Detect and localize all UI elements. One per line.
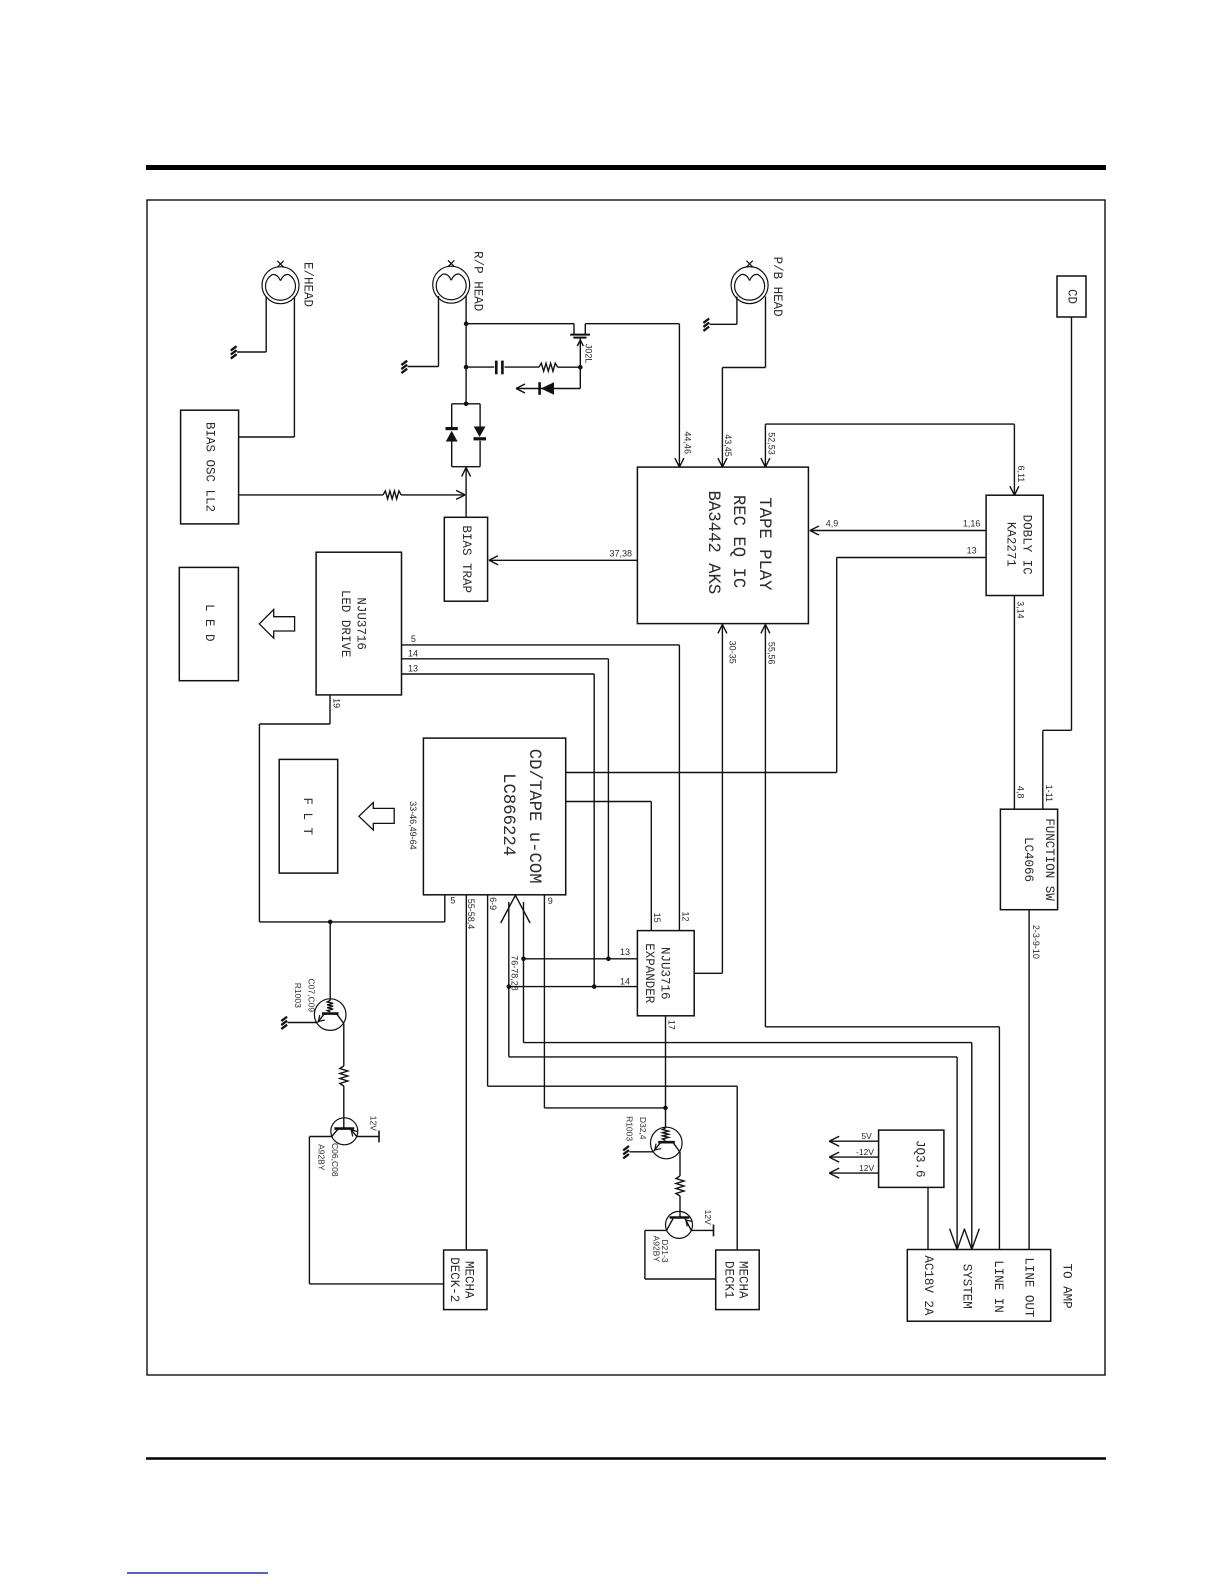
svg-text:R1003: R1003 [293,983,303,1008]
wire LED pin 19 to u-COM pin 5 net [259,695,330,922]
svg-text:REC EQ IC: REC EQ IC [728,495,747,588]
wire expander pin 14 [509,986,638,988]
pin label 5 (LED) [411,634,416,644]
wire resistor to D21 base [679,1196,681,1218]
supply tick 12V (D21) [713,1225,715,1237]
transistor D21 emitter to 12V [685,1218,714,1231]
pin label 76-78,28 [509,955,519,991]
svg-text:1,16: 1,16 [963,519,981,529]
label P/B HEAD [770,257,784,317]
wire CD to FUNCTION SW 1-11 [1043,317,1072,809]
footer blue underline [127,1572,268,1574]
label R1003 (D32) [625,1116,635,1141]
block MECHA DECK-2 [444,1250,487,1310]
block TAPE PLAY REC EQ IC BA3442 AKS [637,467,808,623]
pin label 13 (DOBLY) [967,546,977,556]
svg-text:D32,4: D32,4 [638,1117,648,1140]
wire P/B left lead [710,297,737,325]
wire -12V with arrow [829,1152,878,1162]
schematic border frame [147,200,1105,1375]
svg-text:SYSTEM: SYSTEM [959,1264,973,1309]
pin label 44,46 [682,431,692,454]
node junction pin17/pin9 [663,1106,668,1111]
resistor (C07-C06 link) [340,1066,348,1086]
svg-text:DOBLY IC: DOBLY IC [1020,515,1034,575]
diode D-left branch [446,404,458,467]
label EXPANDER [642,943,656,1004]
label CD/TAPE u-COM [524,749,543,884]
resistor (bias feed) [383,491,401,499]
svg-text:19: 19 [331,698,341,708]
svg-text:TAPE PLAY: TAPE PLAY [754,497,773,591]
pin label 15 [652,913,662,923]
pin label 37,38 [610,549,633,559]
label R/P HEAD [471,251,485,311]
pin label 12 [681,911,691,921]
svg-text:55-58,4: 55-58,4 [466,899,476,930]
svg-text:33-46,49-64: 33-46,49-64 [408,801,418,850]
svg-text:C06,C08: C06,C08 [330,1143,340,1177]
svg-text:12V: 12V [368,1116,378,1131]
label C07,C09 [307,979,317,1013]
wire expander pin 13 [524,958,638,960]
label SYSTEM [959,1264,973,1309]
wire u-COM pin5 node to C07 base [329,922,331,1001]
resistor (gate network) [539,363,558,371]
label JQ3.6 [912,1140,926,1178]
transistor C07 base bar [322,1012,339,1015]
wire 12V with arrow [829,1168,878,1178]
big arrow into SYSTEM (bus A) [964,1229,979,1250]
svg-text:LED DRIVE: LED DRIVE [338,590,352,658]
transistor Q D21-3 (circle) [666,1211,693,1238]
svg-text:14: 14 [408,649,418,659]
capacitor (R/P network) [496,361,502,375]
label DOBLY IC [1020,515,1034,575]
label DECK1 [722,1261,736,1299]
svg-text:DECK1: DECK1 [722,1261,736,1299]
label R1003 (C07) [293,983,303,1008]
block arrow to LED [259,610,294,639]
svg-text:R/P HEAD: R/P HEAD [471,251,485,311]
ground (R/P HEAD) [401,361,407,373]
diode D-right branch [474,404,487,467]
block NJU3716 LED DRIVE [316,552,401,695]
label REC EQ IC [728,495,747,588]
label 12V (C06) [368,1116,378,1131]
svg-text:52,53: 52,53 [766,432,776,455]
wire bus A to SYSTEM arrow [524,902,972,1250]
ground (D32) [623,1146,629,1158]
transistor C07 collector [337,1014,344,1066]
wire capacitor to resistor [505,366,540,368]
transistor D32 collector [673,1142,680,1176]
svg-text:12: 12 [681,911,691,921]
node junction busB/expander14 [507,984,512,989]
svg-text:CD/TAPE u-COM: CD/TAPE u-COM [524,749,543,884]
ground (P/B HEAD) [703,319,709,331]
label C06,C08 [330,1143,340,1177]
bottom rule [146,1457,1106,1460]
block DOBLY IC KA2271 [986,495,1043,595]
label A92BY (D21) [651,1236,661,1263]
erase head E/HEAD symbol [262,261,299,304]
wire bus B to SYSTEM arrow [509,902,957,1250]
pin label 17 [667,1020,677,1030]
pin label 9 (u-COM) [548,896,553,906]
label L E D [202,604,216,642]
label KA2271 [1004,522,1018,567]
block FUNCTION SW LC4066 [1000,809,1057,910]
label BIAS OSC LL2 [203,422,217,512]
wire JQ3.6 to SYSTEM [927,1187,929,1249]
svg-text:37,38: 37,38 [610,549,633,559]
svg-text:15: 15 [652,913,662,923]
pin label 52,53 [766,432,776,455]
svg-text:KA2271: KA2271 [1004,522,1018,567]
label BIAS TRAP [459,525,473,593]
pin label 14 (LED) [408,649,418,659]
label A92BY (C06) [316,1144,326,1171]
pin label 30-35 [727,641,737,664]
svg-text:A92BY: A92BY [651,1236,661,1263]
transistor D21 base bar [670,1216,690,1219]
wire resistor to arrow [401,490,465,499]
svg-text:MECHA: MECHA [736,1261,750,1299]
top rule [146,165,1106,170]
svg-text:5: 5 [450,896,455,906]
svg-text:LC4066: LC4066 [1021,837,1035,882]
resistor (C07 base, internal) [327,1001,333,1013]
big arrow into SYSTEM (bus B) [950,1229,965,1250]
transistor D21 collector to MECHA DECK1 [645,1218,716,1280]
wire pin 44,46 into REC EQ IC [675,324,684,467]
label NJU3716 (EXPANDER) [657,947,671,1000]
transistor D32 emitter [629,1142,661,1152]
svg-text:FUNCTION SW: FUNCTION SW [1042,818,1056,901]
wire LED pin 14 dropper [402,659,609,959]
wire 55,56 to LINE IN [765,1027,999,1250]
transistor Q D32,4 (circle) [651,1127,683,1159]
wire FET gate lead with arrow [577,338,583,368]
resistor (D32-D21 link) [676,1176,684,1196]
svg-text:12V: 12V [703,1210,713,1225]
label LC866224 [498,773,517,856]
block FLT [279,759,338,873]
svg-text:2-3-9-10: 2-3-9-10 [1031,925,1041,959]
wire DOBLY 3,14 to FUNCTION SW [1013,596,1015,810]
svg-text:13: 13 [620,947,630,957]
wire P/B right lead [722,297,765,368]
bus arrow 76-78,28 into u-COM [501,895,530,923]
wire BIAS OSC to bias node (with resistor) [239,494,384,496]
transistor C06 emitter to 12V [350,1129,379,1137]
block arrow to FLT [359,803,394,831]
block JQ3.6 [879,1130,944,1187]
wire u-COM right pin to expander 15 [566,802,652,931]
svg-text:44,46: 44,46 [682,431,692,454]
label F L T [300,798,314,836]
block LED [179,567,238,680]
svg-text:14: 14 [620,977,630,987]
wire R/P left lead [408,296,439,367]
svg-text:4,8: 4,8 [1016,786,1026,799]
label DECK-2 [447,1257,461,1302]
diode pair frame [452,404,480,467]
transistor J02L (FET bars) [570,335,590,338]
wire E/HEAD right lead [239,297,295,438]
block AC18V SYSTEM LINE IN/OUT [907,1250,1050,1322]
transistor Q C06,C08 (circle) [331,1118,358,1145]
block BIAS TRAP [444,517,487,601]
wire resistor to gate node [558,366,581,368]
transistor Q C07,C09 (circle) [314,999,346,1031]
svg-text:P/B HEAD: P/B HEAD [770,257,784,317]
wire resistor to C06 base [343,1086,345,1129]
label CD [1065,289,1079,304]
label MECHA (DECK-2) [461,1261,475,1299]
wire 5V with arrow [829,1136,878,1146]
node diode-pair top junction [464,402,469,407]
resistor (D32 base, internal) [663,1128,669,1141]
pin label 43,45 [723,434,733,457]
ground (C07) [281,1017,287,1029]
svg-text:1-11: 1-11 [1044,785,1054,802]
label NJU3716 (LED DRIVE) [354,597,368,650]
wire 37,38 REC EQ IC to BIAS TRAP [489,556,637,565]
svg-text:BA3442 AKS: BA3442 AKS [703,491,722,595]
svg-text:EXPANDER: EXPANDER [642,943,656,1004]
pin label 14 (expander) [620,977,630,987]
wire LED pin 5 to expander pin 12 [402,645,680,931]
svg-text:55,56: 55,56 [767,642,777,665]
svg-text:17: 17 [667,1020,677,1030]
svg-text:LINE IN: LINE IN [991,1260,1005,1313]
svg-text:4,9: 4,9 [826,519,839,529]
ground (E/HEAD) [231,346,237,358]
wire pin 30-35 expander to IC [718,624,727,973]
block BIAS OSC LL2 [181,410,239,524]
label 12V (JQ) [859,1163,874,1173]
block MECHA DECK1 [716,1250,760,1310]
label MECHA (DECK1) [736,1261,750,1299]
label D21-3 [660,1239,670,1262]
label -12V [856,1147,874,1157]
svg-text:BIAS OSC LL2: BIAS OSC LL2 [203,422,217,512]
wire LED pin 13 dropper [402,674,595,987]
pin label 4,8 [1016,786,1026,799]
svg-text:E/HEAD: E/HEAD [300,262,314,307]
label 5V [861,1131,872,1141]
wire 4,9 DOBLY to IC [810,526,986,535]
block CD/TAPE u-COM LC866224 [423,738,565,895]
svg-text:76-78,28: 76-78,28 [509,955,519,991]
svg-text:43,45: 43,45 [723,434,733,457]
wire R/P right lead [465,296,467,404]
svg-text:JQ3.6: JQ3.6 [912,1140,926,1178]
supply tick 12V (C06) [378,1131,380,1143]
wire 52,53 to DOBLY 6,11 [765,424,1019,495]
wire gate node down to diode branch [516,367,580,393]
pin label 5 (u-COM) [450,896,455,906]
wire E/HEAD left lead [237,297,266,353]
svg-text:3,14: 3,14 [1016,601,1026,619]
wire FET drain to pin 44,46 wire [585,324,679,335]
wire head to capacitor [466,366,494,368]
pin label 1,16 [963,519,981,529]
svg-text:13: 13 [967,546,977,556]
svg-text:LINE OUT: LINE OUT [1021,1257,1035,1318]
wire expander right to pin 30-35 leg [694,972,722,974]
transistor C06 base bar [334,1127,354,1130]
wire R/P head to FET source [466,324,574,335]
svg-text:F L T: F L T [300,798,314,836]
svg-text:BIAS TRAP: BIAS TRAP [459,525,473,593]
label LINE OUT [1021,1257,1035,1318]
svg-text:NJU3716: NJU3716 [354,597,368,650]
pin label 4,9 [826,519,839,529]
svg-text:C07,C09: C07,C09 [307,979,317,1013]
svg-text:6-9: 6-9 [488,897,498,910]
svg-text:A92BY: A92BY [316,1144,326,1171]
pin label 13 (LED) [408,663,418,673]
svg-text:5V: 5V [861,1131,872,1141]
node junction busA/expander13 [521,957,526,962]
transistor D32 base bar [658,1141,675,1144]
svg-text:6,11: 6,11 [1016,465,1026,482]
svg-text:DECK-2: DECK-2 [447,1257,461,1302]
pin label 13 (expander) [620,947,630,957]
pin label 55-58,4 [466,899,476,930]
wire DOBLY pin 13 to u-COM [566,558,986,773]
node gate junction [578,365,583,370]
wire FUNCTION SW 2-3-9-10 to SYSTEM [1028,910,1030,1250]
node junction R/P-gate [464,321,469,326]
label LED DRIVE [338,590,352,658]
wire pin 55,56 down-leg [761,624,770,1026]
wire pin 43,45 into REC EQ IC [718,368,727,468]
svg-text:AC18V 2A: AC18V 2A [921,1255,935,1316]
svg-text:5: 5 [411,634,416,644]
wire u-COM pin 55-58,4 to MECHA DECK-2 [465,895,467,1250]
diode D (gate clamp) [540,382,554,395]
pin label 2-3-9-10 [1031,925,1041,959]
label 12V (D21) [703,1210,713,1225]
wire diode pair to BIAS TRAP [462,467,471,518]
pin label 6,11 [1016,465,1026,482]
svg-text:30-35: 30-35 [727,641,737,664]
wire u-COM pin 9 to D32 node [544,895,665,1108]
svg-text:NJU3716: NJU3716 [657,947,671,1000]
svg-text:13: 13 [408,663,418,673]
pin label 6-9 [488,897,498,910]
svg-text:L E D: L E D [202,604,216,642]
pin label 3,14 [1016,601,1026,619]
block NJU3716 EXPANDER [637,931,694,1016]
wire expander pin 17 to D32 [665,1016,667,1128]
pin label 33-46,49-64 [408,801,418,850]
svg-text:12V: 12V [859,1163,874,1173]
record/play head R/P HEAD symbol [433,260,470,303]
node junction R/P-cap [464,365,469,370]
svg-text:J02L: J02L [583,344,593,364]
block CD [1057,276,1086,317]
node junction pin5/C07 [328,920,333,925]
label TAPE PLAY [754,497,773,591]
svg-text:R1003: R1003 [625,1116,635,1141]
svg-text:9: 9 [548,896,553,906]
pin label 1-11 [1044,785,1054,802]
pin label 19 [331,698,341,708]
svg-text:LC866224: LC866224 [498,773,517,856]
node junction LED13/expander14 [592,984,597,989]
svg-text:-12V: -12V [856,1147,874,1157]
transistor C06 collector to MECHA DECK-2 [309,1129,443,1284]
label D32,4 [638,1117,648,1140]
node junction LED14/expander13 [606,957,611,962]
label J02L [583,344,593,364]
label LINE IN [991,1260,1005,1313]
svg-text:MECHA: MECHA [461,1261,475,1299]
svg-text:CD: CD [1065,289,1079,304]
label AC18V 2A [921,1255,935,1316]
transistor C07 emitter [288,1014,325,1023]
wire u-COM pin 6-9 to MECHA DECK1 [488,895,738,1250]
label BA3442 AKS [703,491,722,595]
svg-text:TO AMP: TO AMP [1060,1264,1074,1309]
label LC4066 [1021,837,1035,882]
label E/HEAD [300,262,314,307]
pin label 55,56 [767,642,777,665]
wire u-COM pin 5 net [259,895,444,922]
playback head P/B HEAD symbol [731,261,768,304]
wire pin 52,53 riser [761,424,770,467]
label FUNCTION SW [1042,818,1056,901]
label TO AMP [1060,1264,1074,1309]
